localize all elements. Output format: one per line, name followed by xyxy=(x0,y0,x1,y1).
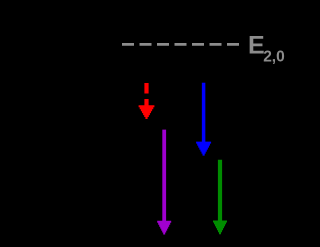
blue arrowhead xyxy=(196,142,211,156)
red dashed arrow (two-photon virtual transition) xyxy=(139,83,155,119)
svg-text:E: E xyxy=(248,32,265,60)
red stem dashes xyxy=(144,83,148,106)
blue arrow (first photon) xyxy=(196,83,211,156)
purple stem xyxy=(162,130,166,222)
purple arrowhead xyxy=(157,221,171,235)
energy level E2,0 dashed line xyxy=(122,43,240,46)
green arrow (second photon alternative) xyxy=(213,160,227,234)
svg-text:2,0: 2,0 xyxy=(263,48,285,65)
green arrowhead xyxy=(213,221,227,235)
green stem xyxy=(218,160,222,222)
red arrowhead xyxy=(139,105,155,119)
purple arrow (second photon, long) xyxy=(157,130,171,235)
blue stem xyxy=(202,83,206,143)
label E_2,0 xyxy=(248,32,285,66)
